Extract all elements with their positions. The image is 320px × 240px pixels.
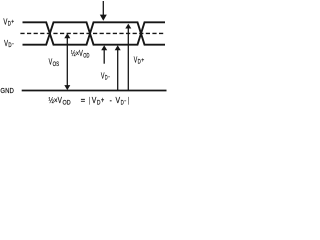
svg-text:OD: OD (83, 53, 89, 60)
label: formula half x VOD = |VD+ - VD-| (49, 96, 130, 107)
arrow: VD- measurement from GND up to low level (115, 45, 121, 90)
label: VD+ (right) (134, 56, 145, 66)
svg-text:|: | (89, 96, 90, 105)
background (0, 0, 167, 108)
svg-text:=: = (81, 96, 86, 105)
label: GND (0, 86, 14, 95)
label: VD+ (top left) (3, 17, 14, 27)
svg-text:-: - (12, 40, 14, 47)
wire: VD+ trace (starts high, crosses at each X) (23, 22, 166, 44)
svg-text:OS: OS (53, 61, 60, 68)
svg-text:+: + (11, 19, 14, 26)
svg-text:½×V: ½×V (71, 49, 84, 58)
svg-text:-: - (108, 73, 110, 80)
dimension arrow VOS: double-headed vertical from dashed line to GND (64, 33, 70, 90)
svg-text:+: + (101, 96, 105, 105)
node: VOS level dashed line (20, 32, 165, 34)
label: VOS (49, 57, 60, 67)
svg-text:-: - (110, 96, 113, 105)
label: VD- (left) (4, 39, 14, 49)
label: VD- (middle bottom) (101, 71, 110, 81)
svg-text:+: + (141, 57, 144, 64)
arrow: VD+ measurement from GND up to high level (125, 24, 131, 90)
label: half x VOD (upper) (71, 49, 90, 59)
wire: VD- trace (starts low, crosses at each X) (23, 22, 166, 44)
arrow: VD- pointer up to low level (short) (101, 45, 107, 63)
svg-text:-: - (124, 98, 126, 105)
arrow: top down arrow pointing at VD+ high level (100, 1, 107, 21)
svg-text:|: | (128, 96, 129, 105)
svg-text:OD: OD (63, 99, 71, 106)
svg-text:GND: GND (0, 86, 14, 95)
wire: GND line (22, 90, 167, 92)
svg-text:½×V: ½×V (49, 96, 63, 105)
